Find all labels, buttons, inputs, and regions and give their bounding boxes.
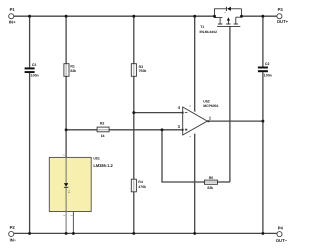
wire C2 column bottom bbox=[262, 72, 264, 233]
svg-text:100n: 100n bbox=[264, 73, 272, 77]
svg-text:100n: 100n bbox=[31, 73, 39, 77]
svg-text:R5: R5 bbox=[209, 176, 214, 180]
source contact bbox=[215, 16, 223, 24]
wire R2 right to non-inverting input (pin 3) bbox=[109, 129, 182, 131]
svg-text:P1: P1 bbox=[10, 7, 16, 12]
svg-text:R1: R1 bbox=[70, 65, 75, 69]
wire feedback from pin3 node down and right to R5 bbox=[162, 130, 205, 182]
resistor R1 bbox=[64, 64, 76, 77]
pin pad pin1 bbox=[207, 120, 209, 122]
wire R3 bottom through divider node to R4 bbox=[133, 76, 135, 179]
svg-text:82k: 82k bbox=[70, 69, 76, 73]
junction pin3 feedback tap bbox=[161, 128, 164, 131]
wire U51 pin1 to bottom rail bbox=[65, 212, 67, 234]
drain contact bbox=[234, 16, 242, 24]
transistor T1 IRLML6402 bbox=[200, 7, 242, 34]
bulk arrow bbox=[226, 21, 230, 25]
terminal P2 bbox=[9, 225, 17, 243]
junction bottom rail at C2 bbox=[261, 232, 264, 235]
junction top rail at C2 bbox=[261, 15, 264, 18]
wire op-amp output (pin 1) to OUT+ rail bbox=[207, 120, 263, 122]
wire R2 left to reference node bbox=[66, 129, 97, 131]
wire U51 pin3 to bottom rail bbox=[72, 212, 74, 234]
resistor R5 bbox=[205, 176, 218, 190]
capacitor C2 bbox=[258, 62, 272, 77]
svg-text:P4: P4 bbox=[278, 226, 284, 231]
U51 internal wire bbox=[65, 157, 67, 211]
terminal P4 bbox=[276, 226, 288, 244]
svg-text:470k: 470k bbox=[138, 185, 146, 189]
junction T1 drain bbox=[240, 15, 243, 18]
svg-text:P2: P2 bbox=[10, 225, 16, 230]
wire C2 column top bbox=[262, 16, 264, 66]
svg-text:P3: P3 bbox=[278, 7, 284, 12]
svg-text:R2: R2 bbox=[100, 122, 105, 126]
svg-text:82k: 82k bbox=[207, 186, 213, 190]
gate bar bbox=[217, 25, 240, 27]
junction T1 source bbox=[213, 15, 216, 18]
svg-text:U52: U52 bbox=[203, 100, 209, 104]
junction bottom rail at R4 bbox=[132, 232, 135, 235]
svg-text:T1: T1 bbox=[200, 25, 204, 29]
terminal P3 bbox=[277, 7, 289, 24]
svg-text:750k: 750k bbox=[139, 69, 147, 73]
junction top rail at R3 bbox=[132, 15, 135, 18]
svg-text:LM385-1.2: LM385-1.2 bbox=[93, 163, 113, 168]
svg-text:MCP6001: MCP6001 bbox=[203, 104, 218, 108]
wire C3 column bbox=[29, 16, 31, 233]
junction bottom rail at C3 bbox=[28, 232, 31, 235]
svg-text:C3: C3 bbox=[32, 63, 37, 67]
wire R3 column top bbox=[133, 16, 135, 64]
svg-text:IRLML6402: IRLML6402 bbox=[200, 30, 218, 34]
junction output to OUT+ rail bbox=[261, 120, 264, 123]
body diode cathode bar bbox=[225, 7, 227, 11]
wire bottom rail IN-/OUT- bbox=[14, 232, 277, 234]
wire R5 right to gate column bbox=[218, 181, 230, 183]
svg-text:U51: U51 bbox=[93, 156, 99, 160]
svg-text:C2: C2 bbox=[265, 62, 270, 66]
junction top rail at op-amp V+ bbox=[193, 15, 196, 18]
junction reference node at R2 bbox=[65, 128, 68, 131]
capacitor C3 bbox=[25, 63, 39, 77]
svg-text:IN+: IN+ bbox=[9, 19, 16, 24]
svg-text:OUT+: OUT+ bbox=[277, 19, 289, 24]
pin 2 end tick bbox=[194, 133, 196, 135]
pin pad pin3 bbox=[182, 129, 184, 131]
wire top rail IN+ left of T1 bbox=[14, 15, 215, 17]
pin 5 end tick bbox=[194, 110, 196, 112]
wire op-amp V+ column (pin 5) bbox=[194, 16, 196, 111]
svg-text:IN−: IN− bbox=[10, 238, 17, 243]
resistor R2 bbox=[97, 122, 109, 139]
junction bottom rail at U51 pin3 bbox=[72, 232, 75, 235]
wire top rail OUT+ right of T1 bbox=[242, 15, 278, 17]
wire R1 bottom to R2 node to U51 bbox=[65, 76, 67, 157]
IC U51 LM385-1.2 bbox=[49, 154, 113, 216]
resistor R4 bbox=[131, 179, 146, 192]
junction top rail at C3 bbox=[28, 15, 31, 18]
wire gate column up to T1 gate bbox=[229, 26, 231, 182]
wire op-amp V- column (pin 2) bbox=[194, 134, 196, 233]
wire R4 bottom bbox=[133, 192, 135, 234]
junction bottom rail at op-amp V- bbox=[193, 232, 196, 235]
pin pad pin4 bbox=[182, 112, 184, 114]
junction bottom rail at U51 pin1 bbox=[65, 232, 68, 235]
svg-text:1k: 1k bbox=[101, 134, 105, 138]
terminal P1 bbox=[9, 7, 16, 24]
svg-text:R4: R4 bbox=[138, 180, 143, 184]
resistor R3 bbox=[131, 64, 146, 77]
junction top rail at R1 bbox=[65, 15, 68, 18]
wire inverting input (pin 4) from divider node bbox=[134, 112, 182, 114]
svg-text:OUT−: OUT− bbox=[276, 238, 288, 243]
junction R3/R4 divider node bbox=[132, 111, 135, 114]
body diode triangle bbox=[227, 7, 231, 11]
U51 zener diode bbox=[64, 183, 68, 187]
wire R1 column top bbox=[65, 16, 67, 64]
body diode loop bbox=[215, 9, 242, 16]
op-amp U52 MCP6001 bbox=[183, 100, 219, 135]
